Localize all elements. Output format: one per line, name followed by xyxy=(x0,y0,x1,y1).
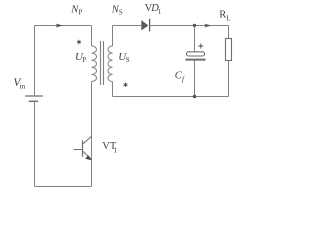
node junction bottom (Cf return) xyxy=(193,95,196,98)
wire diode to RL corner xyxy=(150,25,229,27)
winding dot (asterisk) secondary xyxy=(124,83,128,87)
wire primary bottom xyxy=(35,186,92,188)
svg-text:R: R xyxy=(219,10,226,21)
wire RL bottom vertical xyxy=(228,61,230,97)
wire left vertical (Vin bottom) xyxy=(34,102,36,187)
svg-text:S: S xyxy=(119,8,123,16)
svg-text:P: P xyxy=(82,56,86,64)
transistor VT1 collector line xyxy=(83,136,92,144)
current arrow on output wire xyxy=(204,24,211,28)
resistor RL xyxy=(226,39,232,61)
diode VD1 xyxy=(141,20,148,30)
wire secondary bottom-left vertical xyxy=(112,82,114,97)
wire secondary top-left vertical xyxy=(112,26,114,47)
wire left vertical (Vin top) xyxy=(34,26,36,96)
transformer primary winding xyxy=(92,46,97,82)
transistor VT1 base lead xyxy=(74,149,83,151)
transistor VT1 emitter line with arrow xyxy=(83,151,92,159)
svg-text:S: S xyxy=(126,56,130,64)
plus sign of Cf xyxy=(198,44,203,49)
svg-text:in: in xyxy=(19,82,25,91)
svg-text:1: 1 xyxy=(114,146,118,154)
wire secondary top (to diode) xyxy=(113,25,142,27)
wire RL top vertical xyxy=(228,26,230,39)
svg-text:L: L xyxy=(226,15,230,23)
wire primary top xyxy=(35,25,92,27)
transistor VT1 base bar xyxy=(82,141,84,157)
wire Cf top vertical xyxy=(194,26,196,52)
current arrow on primary top wire xyxy=(56,24,63,28)
wire Cf bottom vertical xyxy=(194,61,196,97)
svg-text:1: 1 xyxy=(158,8,162,16)
battery Vin xyxy=(25,95,43,97)
node junction top (Cf tap) xyxy=(193,24,196,27)
transformer secondary winding xyxy=(108,46,113,82)
capacitor Cf (electrolytic) xyxy=(187,52,205,56)
svg-text:P: P xyxy=(78,8,82,16)
transformer core xyxy=(101,41,104,85)
winding dot (asterisk) primary xyxy=(77,40,81,44)
wire primary right vertical (collector bus) xyxy=(91,26,93,187)
wire secondary bottom xyxy=(113,96,229,98)
